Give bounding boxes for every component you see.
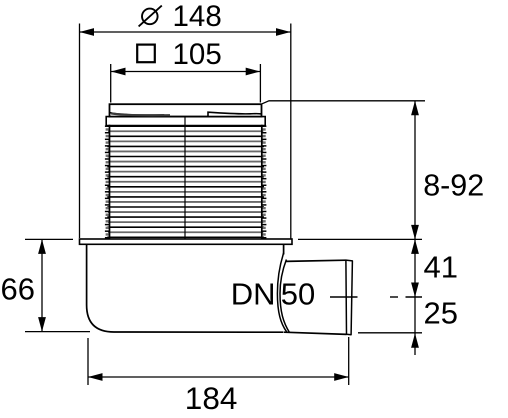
extension line 184 right: [348, 337, 350, 385]
dimension line 105: [111, 71, 260, 73]
outlet end cap: [346, 260, 353, 335]
grate surface thick left stroke: [111, 113, 170, 115]
svg-text:184: 184: [185, 380, 238, 416]
svg-text:148: 148: [173, 0, 222, 33]
svg-text:41: 41: [424, 250, 458, 285]
S-curve wall to outlet (double line): [277, 253, 286, 332]
dimension line 184: [88, 376, 349, 378]
outlet pipe bottom: [284, 332, 347, 334]
flange plate: [80, 239, 293, 244]
extension line 105 left: [110, 64, 112, 103]
svg-text:DN: DN: [231, 277, 276, 312]
extension line 148 left: [79, 24, 81, 239]
dimension line 66: [41, 239, 43, 331]
center line of riser: [184, 118, 186, 244]
extension line top of grate (right): [262, 101, 425, 104]
extension line 148 right: [290, 24, 292, 239]
svg-text:66: 66: [1, 272, 35, 307]
extension line outlet bottom (right): [358, 332, 422, 334]
body right wall: [283, 244, 285, 254]
dimension label □ 105: [137, 38, 222, 71]
dimension label Ø 148: [139, 0, 222, 33]
frame lip band: [106, 117, 265, 126]
dimension line 8-92: [414, 101, 416, 240]
drain body outline: [87, 244, 284, 332]
svg-text:8-92: 8-92: [423, 169, 484, 203]
extension line 105 right: [259, 64, 261, 103]
extension line flange top (right): [298, 238, 422, 240]
extension line 184 left: [87, 338, 89, 385]
extension line 66 bottom (left): [25, 331, 90, 333]
svg-text:105: 105: [173, 38, 222, 71]
outlet pipe top: [286, 260, 346, 261]
grate surface wavy line: [110, 112, 261, 116]
dimension line 25 (arrows outside): [414, 297, 416, 355]
riser ribs: [105, 125, 267, 239]
svg-text:25: 25: [424, 296, 458, 331]
extension line 66 top (left): [25, 238, 73, 240]
dimension line 41: [414, 239, 416, 297]
svg-text:50: 50: [281, 277, 315, 312]
dimension line 148: [80, 31, 291, 33]
grate frame cap: [110, 104, 262, 116]
dashed centerline of outlet: [330, 296, 422, 298]
